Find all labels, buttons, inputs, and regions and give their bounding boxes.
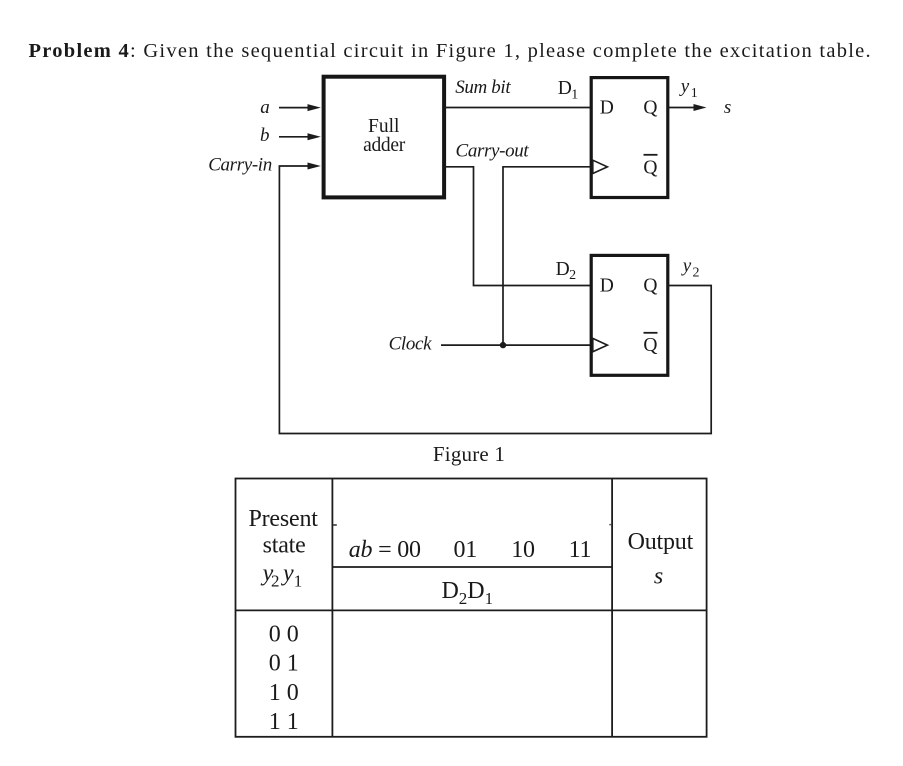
svg-text:b: b	[260, 125, 270, 146]
wire carry-out (adder to FF2 D)	[444, 167, 591, 286]
svg-text:y: y	[679, 76, 690, 97]
wire a input	[279, 104, 321, 111]
table header: Present state y2y1	[248, 506, 318, 559]
svg-text:2: 2	[693, 266, 700, 281]
svg-text:Sum bit: Sum bit	[455, 77, 511, 98]
svg-text:0 1: 0 1	[269, 651, 299, 677]
svg-text:Carry-in: Carry-in	[208, 154, 272, 175]
wire feedback y2 to Carry-in	[279, 166, 711, 434]
net label y1	[679, 76, 698, 101]
svg-text:ab = 00: ab = 00	[349, 537, 421, 563]
svg-text:Q: Q	[643, 157, 657, 178]
svg-text:1: 1	[571, 87, 578, 102]
svg-text:Present: Present	[248, 506, 318, 532]
tick mark right of header cell	[609, 524, 611, 526]
svg-text:D: D	[442, 578, 459, 604]
svg-text:1: 1	[691, 86, 698, 101]
wire b input	[279, 133, 321, 140]
junction clock node	[500, 342, 506, 348]
svg-text:2: 2	[459, 589, 468, 608]
flip-flop U2 (D flip-flop 1)	[591, 78, 668, 198]
table header: D2D1	[442, 578, 494, 608]
svg-text:1 0: 1 0	[269, 680, 299, 706]
wire FF1 Q output to s	[668, 104, 707, 111]
svg-text:Output: Output	[628, 529, 694, 555]
svg-text:Full: Full	[368, 116, 400, 137]
svg-text:y: y	[681, 256, 692, 277]
excitation table frame	[236, 479, 707, 737]
svg-text:s: s	[654, 563, 663, 589]
svg-text:D: D	[467, 578, 484, 604]
tick mark left of header cell	[333, 524, 337, 526]
svg-text:a: a	[260, 97, 270, 118]
svg-text:Clock: Clock	[389, 334, 432, 355]
table header: Output s	[628, 529, 694, 590]
svg-text:01: 01	[453, 537, 477, 563]
svg-text:11: 11	[569, 537, 592, 563]
svg-text:Figure 1: Figure 1	[433, 442, 505, 466]
svg-text:s: s	[724, 97, 731, 118]
wire sum bit (adder to FF1 D)	[444, 107, 591, 109]
svg-text:D: D	[600, 98, 614, 119]
arrowhead carry-in input	[308, 163, 321, 170]
svg-text:D: D	[600, 276, 614, 297]
svg-text:D: D	[556, 259, 570, 280]
net label y2	[681, 256, 700, 281]
table header: ab = 00 01 10 11	[349, 537, 592, 563]
full adder U1	[324, 77, 445, 198]
svg-text:0 0: 0 0	[269, 621, 299, 647]
svg-text:Q: Q	[643, 276, 657, 297]
svg-text:Q: Q	[643, 98, 657, 119]
svg-text:y: y	[281, 561, 294, 587]
wire clock to FF2	[441, 344, 591, 346]
svg-text:Problem 4: Given the sequentia: Problem 4: Given the sequential circuit …	[29, 40, 872, 62]
svg-text:1 1: 1 1	[269, 709, 299, 735]
svg-text:1: 1	[294, 572, 303, 591]
svg-text:D: D	[558, 78, 572, 99]
flip-flop U3 (D flip-flop 2)	[591, 255, 668, 375]
svg-text:Q: Q	[643, 335, 657, 356]
svg-text:Carry-out: Carry-out	[456, 140, 530, 161]
svg-text:10: 10	[511, 537, 535, 563]
svg-text:2: 2	[569, 268, 576, 283]
table rows: present-state values	[269, 621, 299, 735]
svg-text:state: state	[263, 533, 306, 559]
svg-text:adder: adder	[363, 135, 406, 156]
wire clock branch to FF1	[503, 167, 591, 345]
svg-text:2: 2	[271, 572, 280, 591]
svg-text:1: 1	[485, 589, 494, 608]
